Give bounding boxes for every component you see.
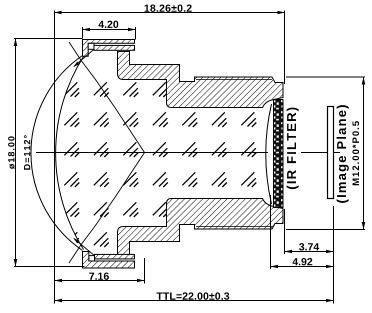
dimension 4.20 extension left [82, 27, 84, 39]
dimension 18.26 text [145, 5, 192, 12]
dimension 4.92 line [271, 266, 334, 268]
dimension 7.16 extension right [144, 258, 146, 284]
dimension 4.92 text [292, 258, 312, 265]
dimension 3.74 extension left [284, 209, 286, 254]
dimension 18.26 extension left [54, 11, 56, 304]
spacer strip top [94, 45, 135, 50]
ray lower marginal arrowhead [73, 238, 79, 244]
front dome inner arc [56, 57, 84, 250]
dimension dia18 extension bottom [14, 266, 85, 268]
optical axis centerline left [36, 152, 268, 154]
retainer cap top notch [88, 43, 94, 49]
dimension 3.74 line [285, 251, 334, 253]
dimension 4.20 line [83, 29, 136, 31]
dimension dia18 extension top [14, 38, 83, 40]
dimension 18.26 line [55, 12, 285, 14]
lens glass interior region [56, 57, 272, 255]
barrel lower thread root line [196, 226, 272, 228]
front dome outer arc [31, 56, 83, 251]
dimension TTL text [157, 292, 230, 299]
label Image Plane text [337, 105, 349, 203]
rear element surface arc [266, 104, 272, 204]
dimension TTL line [55, 300, 334, 302]
spacer strip bottom [95, 254, 135, 259]
barrel upper half section [118, 52, 284, 108]
dimension dia18 line [15, 39, 17, 267]
dimension dia18 text [8, 136, 15, 169]
label IR FILTER text [287, 108, 299, 189]
dimension 4.20 text [98, 21, 118, 28]
ray lower marginal [74, 238, 95, 255]
dimension 7.16 text [89, 273, 109, 280]
dimension 4.20 extension right [135, 27, 137, 40]
dimension 7.16 line [55, 280, 145, 282]
ray upper marginal arrowhead [73, 62, 79, 68]
retainer cap bottom [83, 252, 135, 269]
dimension 4.92 extension left [270, 195, 272, 269]
dimension 3.74 text [299, 243, 319, 250]
dimension M12 line [363, 77, 365, 230]
barrel lower half section [118, 199, 284, 255]
image plane bar [328, 107, 334, 199]
dimension M12 extension bottom [286, 229, 365, 231]
ray upper marginal [74, 49, 94, 66]
dimension M12 extension top [286, 76, 365, 78]
dimension TTL extension right [333, 206, 335, 304]
ray upper chief [69, 42, 145, 153]
dimension 18.26 extension right [284, 11, 286, 85]
IR filter plate [274, 100, 284, 208]
label D=112 text [24, 135, 30, 169]
optical axis centerline right [301, 152, 340, 154]
barrel upper thread root line [196, 79, 272, 81]
ray lower chief [69, 153, 145, 264]
retainer cap bottom notch [89, 256, 95, 261]
dimension M12 text [352, 121, 359, 185]
retainer cap top [83, 40, 135, 57]
